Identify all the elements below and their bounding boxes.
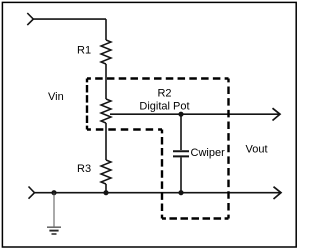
input terminal arrow (Vin, top-left) xyxy=(27,13,33,25)
wire: wiper tap down to Cwiper xyxy=(180,114,182,150)
ground xyxy=(47,227,61,234)
svg-text:Cwiper: Cwiper xyxy=(191,147,226,159)
junction: Cwiper bottom xyxy=(178,190,183,195)
wire: wiper output to Vout xyxy=(110,113,279,115)
arrow: wiper output (right) xyxy=(273,108,281,120)
svg-text:R3: R3 xyxy=(77,163,91,175)
svg-text:R1: R1 xyxy=(77,45,91,57)
wire: bottom rail xyxy=(35,192,281,194)
junction: wiper / Cwiper tap xyxy=(178,112,183,117)
svg-text:R2: R2 xyxy=(157,88,171,100)
wire: R3 to bottom rail xyxy=(105,184,107,193)
svg-text:Vout: Vout xyxy=(246,144,268,156)
wire: Vin terminal to top corner xyxy=(33,18,106,20)
junction: R3 bottom xyxy=(103,190,108,195)
resistor R3 xyxy=(101,160,111,184)
wire: R2 to R3 xyxy=(105,123,107,160)
junction: ground tap xyxy=(51,190,56,195)
wire: R1 to R2 xyxy=(105,64,107,99)
wire: Cwiper to bottom rail xyxy=(180,157,182,193)
svg-text:Vin: Vin xyxy=(48,91,64,103)
resistor R2 (digital pot element) xyxy=(101,99,111,123)
svg-text:Digital Pot: Digital Pot xyxy=(139,101,189,113)
dashed outline: R2 Digital Pot block xyxy=(87,79,229,219)
input terminal arrow (bottom-left) xyxy=(29,187,35,199)
wire: top corner down to R1 xyxy=(105,19,107,40)
capacitor Cwiper xyxy=(173,151,189,156)
arrow: bottom rail output (right) xyxy=(274,187,282,199)
resistor R1 xyxy=(101,40,111,64)
wire: rail to ground xyxy=(53,193,55,227)
